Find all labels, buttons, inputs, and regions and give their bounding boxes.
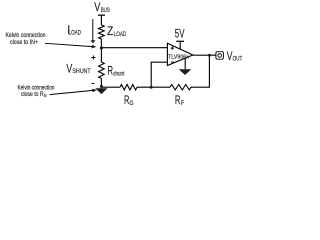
wire 5V to op-amp V+ <box>179 41 181 49</box>
wire ILOAD current arrow line <box>92 19 94 41</box>
note kelvin connection RS <box>18 85 55 98</box>
note kelvin connection IN+ <box>6 32 46 46</box>
minus Vshunt <box>91 82 94 84</box>
junction output node <box>208 54 211 57</box>
svg-text:S: S <box>44 93 47 98</box>
label VBUS <box>94 2 110 14</box>
arrow kelvin IN+ <box>92 45 97 49</box>
svg-text:F: F <box>181 100 184 107</box>
svg-text:close to R: close to R <box>21 91 44 98</box>
junction node IN+ <box>100 46 103 49</box>
resistor ZLOAD <box>99 25 105 39</box>
wire RG to RF <box>137 86 170 88</box>
resistor RG <box>120 85 137 90</box>
node VBUS terminal bar <box>98 14 105 16</box>
label VSHUNT <box>66 63 90 75</box>
svg-text:OUT: OUT <box>233 56 243 63</box>
plus op-amp input <box>171 46 174 49</box>
svg-text:LOAD: LOAD <box>69 30 81 37</box>
label Rshunt <box>107 65 124 77</box>
wire kelvin RS annotation arrow line <box>50 90 93 94</box>
resistor Rshunt <box>99 62 105 79</box>
svg-text:Kelvin connection: Kelvin connection <box>6 32 46 39</box>
node 5V terminal bar <box>176 40 184 42</box>
svg-text:LOAD: LOAD <box>114 31 127 38</box>
svg-text:5V: 5V <box>175 29 185 41</box>
svg-text:V: V <box>94 2 100 14</box>
arrow kelvin RS <box>92 89 97 93</box>
label VOUT <box>227 51 243 63</box>
svg-text:SHUNT: SHUNT <box>72 68 90 75</box>
wire kelvin IN+ annotation arrow line <box>45 43 93 46</box>
wire RF to output feedback corner <box>191 55 209 87</box>
minus op-amp input <box>171 61 174 63</box>
svg-text:G: G <box>129 100 133 107</box>
svg-text:close to IN+: close to IN+ <box>10 39 38 46</box>
wire VBUS bar to ZLOAD <box>100 15 102 25</box>
svg-text:shunt: shunt <box>113 70 124 77</box>
ground op-amp <box>179 69 192 75</box>
label RF <box>175 95 184 107</box>
op-amp U1 triangle <box>167 43 193 65</box>
plus Vshunt <box>91 55 95 59</box>
port VOUT symbol <box>216 52 224 60</box>
label ZLOAD <box>107 26 126 38</box>
svg-text:Z: Z <box>107 26 113 38</box>
ground shunt <box>95 88 107 94</box>
label ILOAD <box>67 25 81 37</box>
wire op-amp V- to ground <box>184 58 186 69</box>
wire inverting input feedback <box>151 62 167 87</box>
arrow ILOAD <box>91 40 96 43</box>
wire ground node to RG <box>101 86 120 88</box>
wire Rshunt to ground node <box>100 79 102 89</box>
junction RG-RF node <box>150 86 153 89</box>
wire ZLOAD to node IN+ and down to Rshunt <box>100 39 102 62</box>
svg-text:R: R <box>107 65 113 77</box>
svg-text:R: R <box>175 95 181 107</box>
svg-text:TLV906x: TLV906x <box>168 54 189 60</box>
svg-text:BUS: BUS <box>101 7 111 14</box>
label RG <box>124 95 134 107</box>
resistor RF <box>170 85 191 90</box>
wire node to op-amp + input <box>101 47 167 49</box>
wire op-amp output <box>193 54 216 56</box>
junction ground node <box>100 85 103 88</box>
